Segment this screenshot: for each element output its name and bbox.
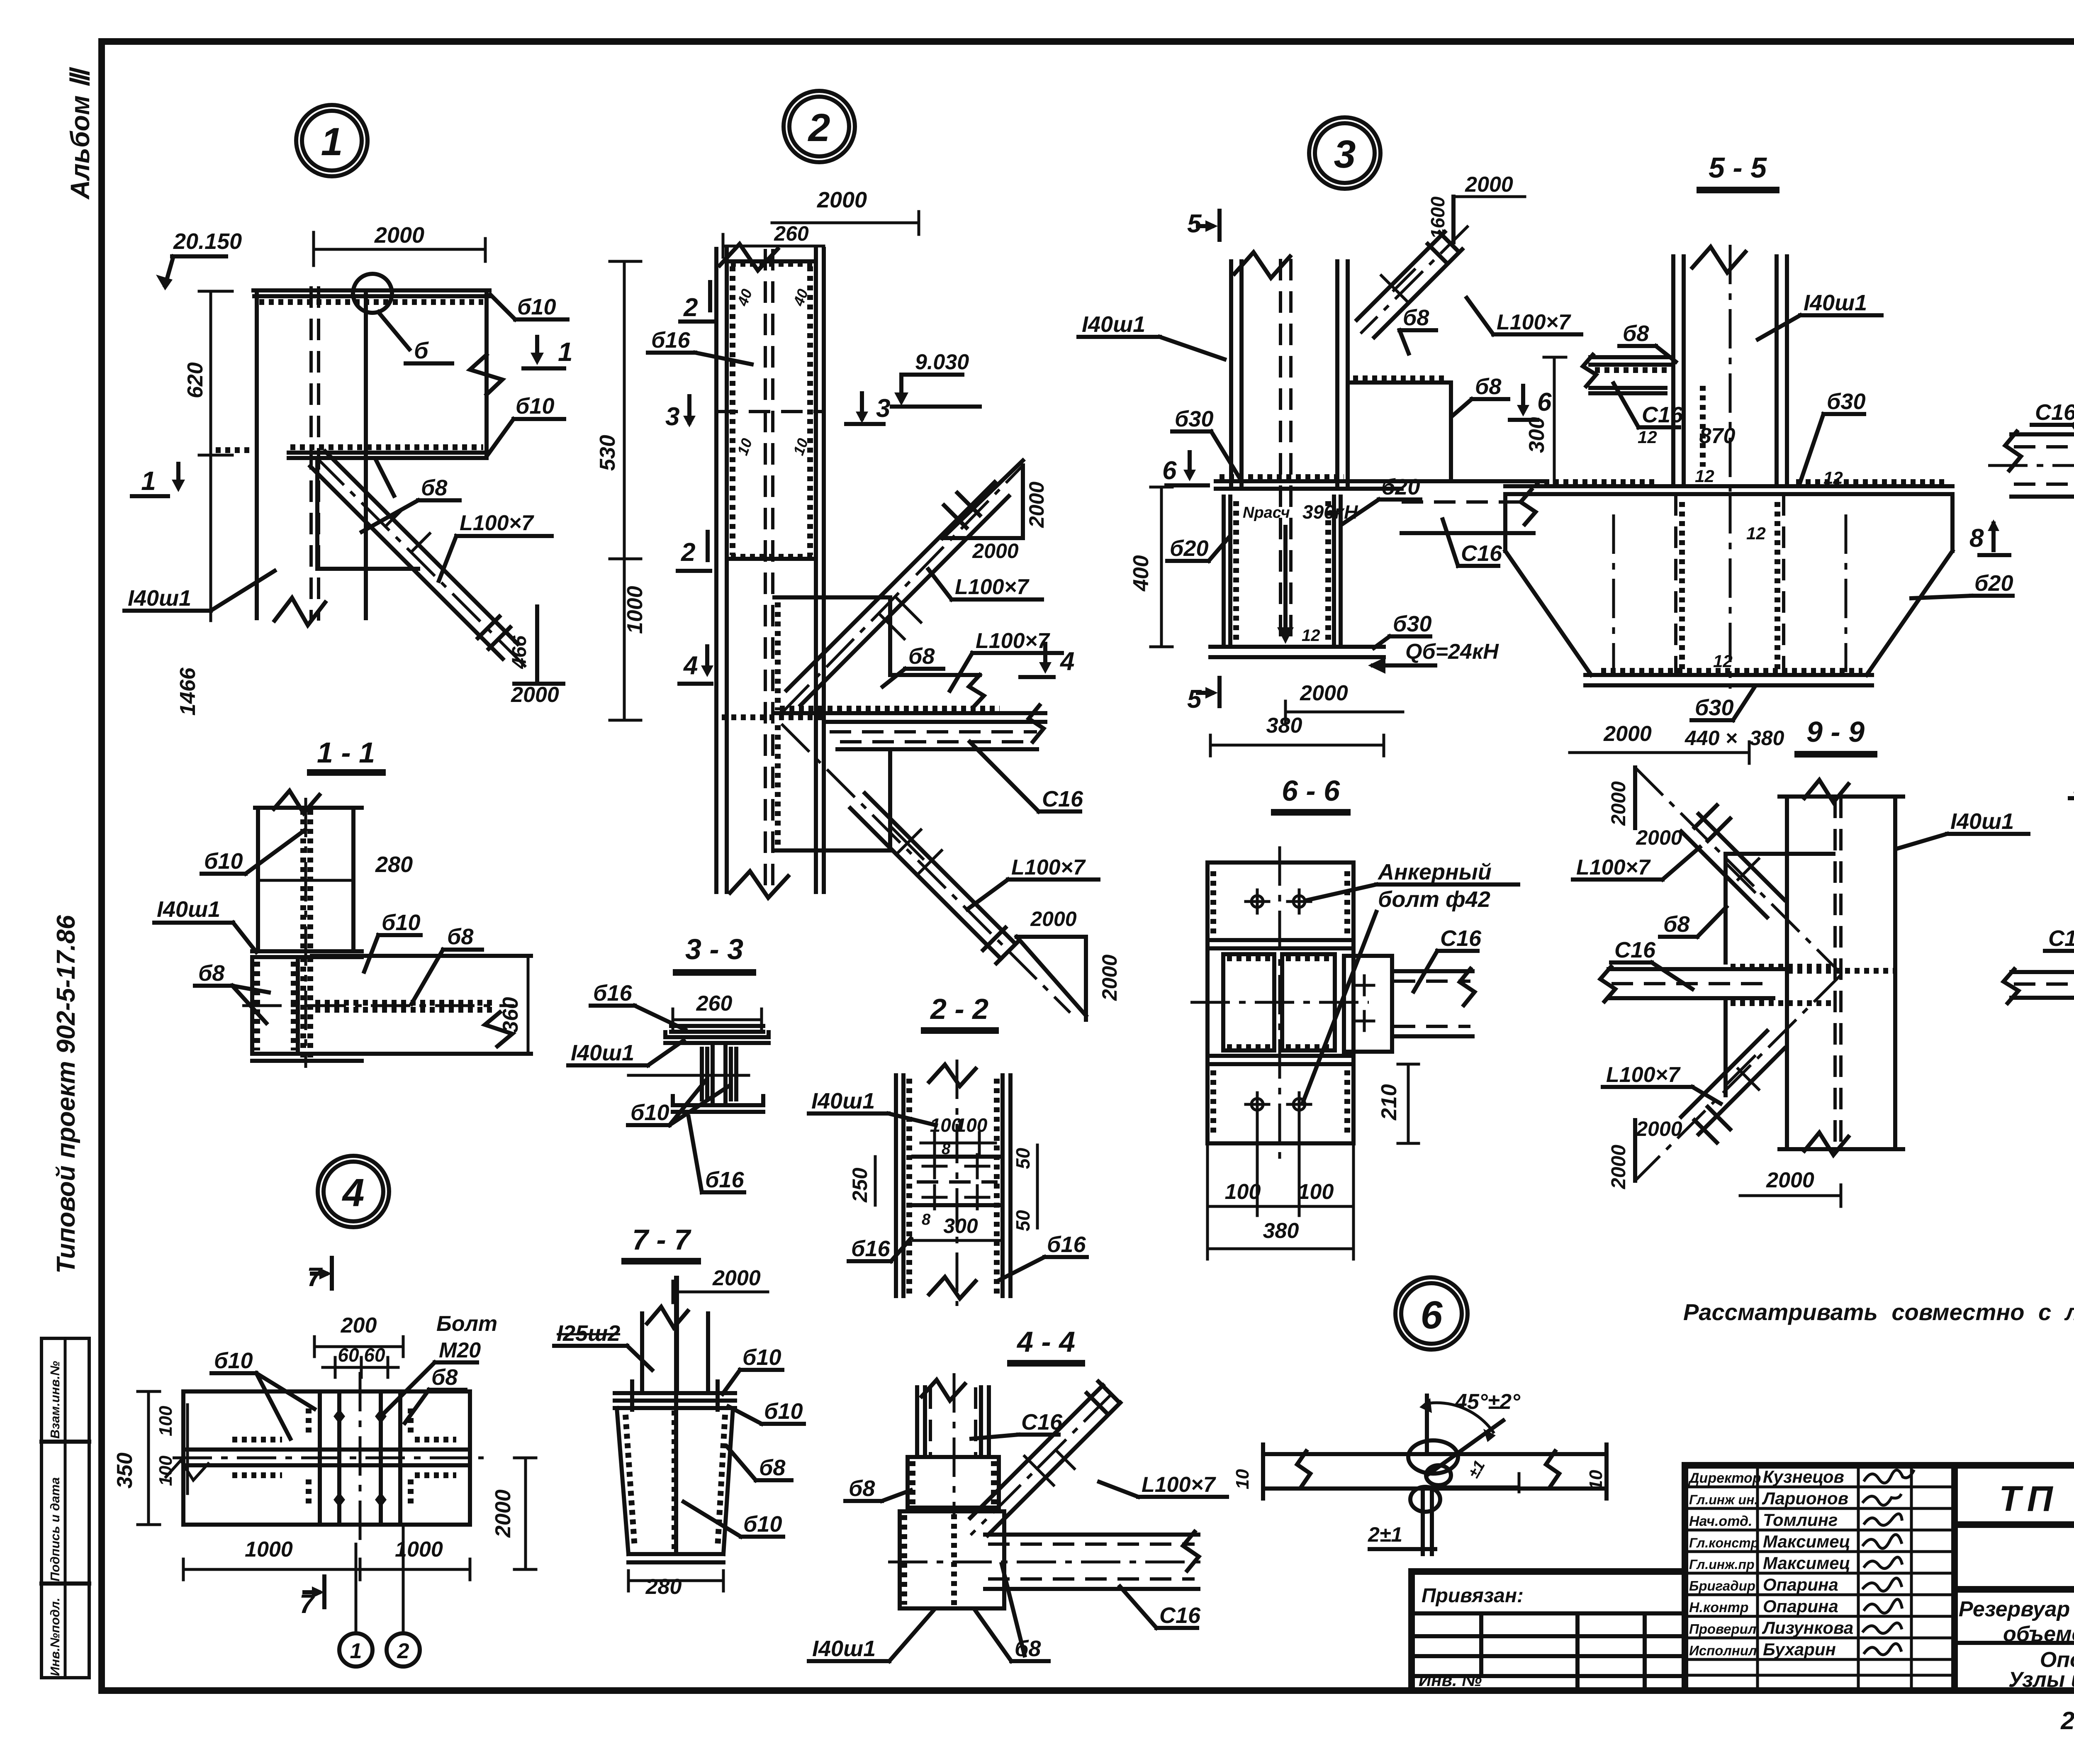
svg-text:1: 1 (558, 337, 573, 367)
svg-text:б20: б20 (1974, 571, 2013, 596)
svg-text:440 ×: 440 × (1685, 726, 1738, 750)
svg-text:б10: б10 (204, 849, 243, 874)
svg-text:2000: 2000 (1030, 907, 1076, 931)
svg-text:2000: 2000 (1603, 722, 1652, 746)
svg-text:280: 280 (375, 852, 413, 877)
svg-text:объемом 5000 куб м: объемом 5000 куб м (2003, 1622, 2074, 1646)
svg-text:С16: С16 (1614, 938, 1656, 962)
svg-text:Директор: Директор (1688, 1470, 1761, 1486)
svg-text:І40ш1: І40ш1 (1082, 312, 1145, 337)
svg-text:466: 466 (509, 636, 531, 669)
svg-text:б10: б10 (743, 1512, 782, 1537)
svg-text:Подпись и дата: Подпись и дата (48, 1477, 62, 1581)
svg-text:М20: М20 (439, 1338, 481, 1362)
svg-text:2000: 2000 (1608, 1145, 1630, 1189)
svg-text:С16: С16 (2048, 926, 2074, 951)
svg-text:Рассматривать совместно с л: Рассматривать совместно с листом 25. (1683, 1299, 2074, 1325)
svg-text:Бухарин: Бухарин (1763, 1640, 1836, 1659)
svg-text:Опарина: Опарина (1763, 1575, 1838, 1594)
svg-text:530: 530 (596, 435, 620, 471)
svg-text:б30: б30 (1827, 389, 1866, 414)
svg-text:б30: б30 (1695, 695, 1734, 720)
svg-text:І40ш1: І40ш1 (812, 1636, 876, 1661)
svg-text:1: 1 (141, 466, 156, 496)
svg-text:2000: 2000 (1300, 681, 1348, 705)
svg-text:200: 200 (341, 1313, 377, 1338)
svg-text:Н.контр: Н.контр (1689, 1600, 1749, 1615)
svg-text:6 - 6: 6 - 6 (1282, 775, 1340, 807)
svg-text:б8: б8 (759, 1455, 785, 1480)
svg-text:б16: б16 (705, 1167, 744, 1192)
svg-text:Инв. №: Инв. № (1419, 1670, 1482, 1690)
svg-text:50: 50 (1012, 1210, 1034, 1231)
svg-text:300: 300 (1525, 417, 1549, 453)
svg-text:Гл.констр: Гл.констр (1689, 1535, 1759, 1550)
svg-text:б30: б30 (1393, 612, 1432, 636)
svg-text:4 - 4: 4 - 4 (1016, 1325, 1075, 1358)
svg-text:12: 12 (1713, 651, 1733, 671)
svg-text:б8: б8 (431, 1365, 458, 1390)
svg-text:60: 60 (364, 1344, 385, 1366)
svg-text:2: 2 (681, 538, 695, 567)
svg-text:2: 2 (683, 293, 698, 322)
svg-text:10: 10 (1232, 1469, 1253, 1489)
svg-text:8: 8 (1969, 524, 1984, 553)
svg-text:4: 4 (342, 1171, 365, 1215)
svg-text:280: 280 (645, 1575, 682, 1599)
svg-text:4: 4 (683, 651, 698, 680)
svg-text:2000: 2000 (1766, 1168, 1814, 1192)
svg-text:С16: С16 (1042, 787, 1083, 811)
svg-text:380: 380 (1266, 714, 1302, 738)
svg-text:300: 300 (943, 1214, 978, 1238)
svg-text:2 - 2: 2 - 2 (930, 993, 988, 1025)
svg-text:3 - 3: 3 - 3 (685, 933, 743, 965)
svg-text:І25ш2: І25ш2 (557, 1321, 620, 1346)
svg-text:L100×7: L100×7 (1011, 855, 1086, 880)
svg-text:12: 12 (1823, 468, 1843, 487)
svg-text:2000: 2000 (817, 188, 867, 212)
svg-text:б8: б8 (421, 475, 447, 500)
svg-text:10: 10 (1586, 1470, 1606, 1490)
svg-text:1 - 1: 1 - 1 (317, 736, 375, 769)
svg-text:2000: 2000 (1608, 781, 1630, 826)
svg-text:б8: б8 (1403, 305, 1429, 330)
svg-text:Анкерный: Анкерный (1377, 860, 1492, 884)
svg-text:С16: С16 (1642, 402, 1683, 427)
svg-text:60: 60 (338, 1344, 359, 1366)
svg-text:Максимец: Максимец (1763, 1532, 1850, 1551)
svg-text:б8: б8 (1623, 321, 1649, 346)
svg-text:б10: б10 (764, 1399, 803, 1424)
svg-text:2000: 2000 (712, 1266, 761, 1290)
svg-text:2: 2 (808, 106, 830, 150)
svg-text:L100×7: L100×7 (1576, 855, 1651, 880)
svg-text:І40ш1: І40ш1 (1950, 809, 2014, 834)
svg-text:400: 400 (1129, 555, 1153, 592)
svg-text:2±1: 2±1 (1368, 1523, 1402, 1546)
svg-text:Проверил: Проверил (1689, 1621, 1756, 1637)
svg-text:Бригадир: Бригадир (1689, 1578, 1755, 1593)
svg-text:Исполнил: Исполнил (1689, 1643, 1757, 1658)
svg-text:б8: б8 (198, 961, 224, 986)
svg-text:2000: 2000 (374, 223, 424, 248)
svg-text:б10: б10 (742, 1345, 781, 1370)
svg-text:Альбом Ⅲ: Альбом Ⅲ (65, 67, 95, 200)
svg-text:L100×7: L100×7 (955, 575, 1030, 599)
svg-text:І40ш1: І40ш1 (1804, 290, 1867, 315)
svg-text:С16: С16 (1159, 1603, 1201, 1628)
svg-text:350: 350 (113, 1452, 137, 1489)
svg-text:б10: б10 (382, 910, 421, 935)
svg-text:1600: 1600 (1427, 196, 1448, 239)
svg-text:б8: б8 (849, 1476, 875, 1501)
svg-text:Кузнецов: Кузнецов (1763, 1467, 1844, 1486)
svg-text:360: 360 (499, 997, 523, 1033)
svg-text:1: 1 (350, 1639, 362, 1663)
svg-text:С16: С16 (2035, 400, 2074, 425)
svg-text:Привязан:: Привязан: (1422, 1585, 1524, 1607)
svg-text:20.150: 20.150 (173, 229, 242, 254)
svg-text:болт ф42: болт ф42 (1378, 887, 1490, 912)
svg-text:б8: б8 (908, 644, 935, 669)
svg-text:3: 3 (1334, 132, 1356, 176)
svg-text:100: 100 (156, 1406, 176, 1436)
svg-text:5: 5 (1187, 210, 1202, 238)
svg-text:1000: 1000 (623, 586, 647, 634)
svg-text:6: 6 (1162, 456, 1177, 485)
svg-text:3: 3 (665, 402, 679, 431)
svg-text:45°±2°: 45°±2° (1455, 1390, 1521, 1414)
svg-text:2000: 2000 (511, 683, 559, 707)
svg-text:12: 12 (1695, 466, 1714, 486)
svg-text:8: 8 (942, 1140, 951, 1158)
svg-text:ТП 902-5-17.86 КМ: ТП 902-5-17.86 КМ (1999, 1479, 2074, 1519)
svg-text:Гл.инж.пр: Гл.инж.пр (1689, 1557, 1755, 1572)
svg-text:б16: б16 (851, 1236, 890, 1261)
svg-text:б8: б8 (1663, 912, 1689, 937)
svg-text:б8: б8 (447, 924, 473, 949)
svg-text:І40ш1: І40ш1 (571, 1040, 634, 1065)
svg-text:100: 100 (1298, 1180, 1334, 1204)
svg-text:7 - 7: 7 - 7 (632, 1223, 691, 1256)
svg-text:Нач.отд.: Нач.отд. (1689, 1513, 1752, 1529)
svg-text:396кН: 396кН (1302, 501, 1358, 523)
svg-text:2: 2 (397, 1639, 409, 1663)
svg-text:Nрасч: Nрасч (1243, 504, 1290, 521)
svg-text:L100×7: L100×7 (1606, 1063, 1681, 1087)
svg-text:21539-03: 21539-03 (2060, 1707, 2074, 1735)
svg-text:1466: 1466 (176, 667, 200, 716)
svg-text:б30: б30 (1175, 407, 1214, 431)
svg-text:260: 260 (696, 992, 733, 1016)
svg-text:Резервуар метантенков: Резервуар метантенков (1959, 1597, 2074, 1621)
svg-text:б16: б16 (651, 328, 690, 353)
svg-text:Инв.№подл.: Инв.№подл. (48, 1598, 62, 1676)
svg-text:С16: С16 (1440, 926, 1482, 951)
svg-text:б16: б16 (593, 981, 632, 1006)
svg-text:12: 12 (1302, 626, 1320, 645)
svg-text:С16: С16 (1461, 541, 1502, 566)
svg-text:210: 210 (1377, 1084, 1401, 1121)
svg-text:9.030: 9.030 (915, 350, 969, 374)
svg-text:380: 380 (1750, 726, 1784, 750)
svg-text:І40ш1: І40ш1 (157, 897, 220, 922)
svg-text:Лизункова: Лизункова (1762, 1618, 1853, 1637)
svg-text:Взам.инв.№: Взам.инв.№ (48, 1361, 62, 1439)
svg-text:L100×7: L100×7 (976, 629, 1050, 653)
svg-text:8: 8 (922, 1211, 931, 1228)
svg-text:б20: б20 (1170, 536, 1209, 561)
svg-text:б10: б10 (516, 394, 555, 419)
svg-text:б10: б10 (630, 1100, 669, 1125)
svg-text:2000: 2000 (1636, 826, 1682, 849)
svg-text:б10: б10 (517, 295, 556, 319)
svg-text:1000: 1000 (245, 1537, 293, 1562)
svg-text:L100×7: L100×7 (1497, 310, 1571, 334)
svg-text:2000: 2000 (1025, 482, 1048, 528)
svg-text:1: 1 (321, 120, 343, 164)
svg-text:І40ш1: І40ш1 (128, 586, 191, 611)
svg-text:б20: б20 (1381, 475, 1420, 499)
svg-text:9 - 9: 9 - 9 (1806, 716, 1865, 748)
svg-text:2000: 2000 (1636, 1117, 1682, 1140)
svg-text:2000: 2000 (972, 539, 1018, 563)
svg-text:100: 100 (1225, 1180, 1261, 1204)
svg-text:б16: б16 (1047, 1232, 1086, 1257)
svg-text:б8: б8 (1475, 374, 1501, 399)
svg-text:Гл.инж ин.: Гл.инж ин. (1689, 1492, 1758, 1507)
svg-text:L100×7: L100×7 (1142, 1473, 1216, 1497)
svg-text:Максимец: Максимец (1763, 1553, 1850, 1573)
svg-text:L100×7: L100×7 (460, 511, 534, 535)
svg-text:І40ш1: І40ш1 (811, 1089, 875, 1113)
svg-text:б8: б8 (1015, 1636, 1041, 1661)
svg-text:5: 5 (1187, 685, 1202, 714)
svg-text:50: 50 (1012, 1148, 1034, 1169)
svg-text:б10: б10 (214, 1348, 253, 1373)
svg-text:б: б (414, 337, 429, 363)
svg-text:250: 250 (848, 1167, 871, 1203)
svg-text:Qб=24кН: Qб=24кН (1405, 640, 1499, 664)
svg-text:2000: 2000 (1098, 955, 1121, 1001)
svg-text:12: 12 (1638, 427, 1657, 447)
svg-text:Болт: Болт (436, 1312, 497, 1336)
svg-text:12: 12 (1746, 524, 1766, 543)
svg-text:5 - 5: 5 - 5 (1709, 151, 1767, 184)
svg-text:Томлинг: Томлинг (1763, 1510, 1838, 1530)
svg-text:3: 3 (876, 394, 890, 423)
svg-text:100: 100 (956, 1114, 988, 1136)
svg-text:620: 620 (183, 362, 207, 398)
svg-text:Типовой проект 902-5-17.86: Типовой проект 902-5-17.86 (52, 915, 80, 1274)
svg-text:Опарина: Опарина (1763, 1596, 1838, 1616)
svg-text:6: 6 (1421, 1293, 1443, 1337)
svg-text:6: 6 (1537, 388, 1552, 417)
svg-text:380: 380 (1263, 1219, 1299, 1243)
svg-text:2000: 2000 (1465, 173, 1513, 197)
svg-text:2000: 2000 (491, 1489, 515, 1538)
svg-text:Ларионов: Ларионов (1762, 1489, 1848, 1508)
svg-text:260: 260 (774, 222, 809, 245)
svg-text:Узлы и разрезы.: Узлы и разрезы. (2008, 1668, 2074, 1692)
